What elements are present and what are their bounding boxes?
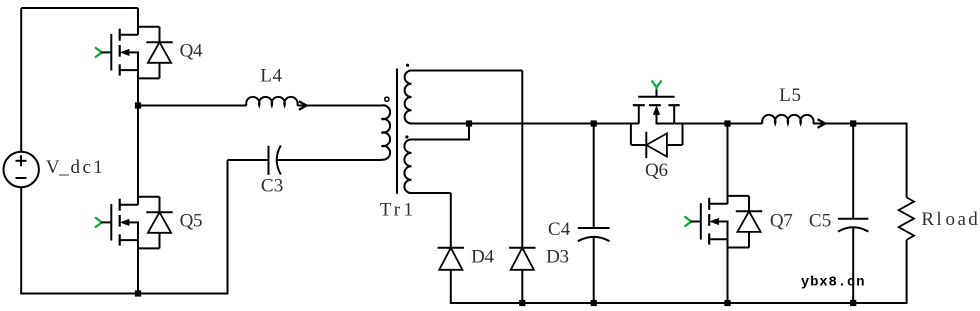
svg-text:7: 7 [783,211,793,232]
svg-text:b: b [810,275,818,291]
voltage source V_dc1 [4,152,39,187]
junction center tap [466,120,472,126]
transformer Tr1 primary winding [382,105,391,159]
svg-text:C: C [809,211,822,232]
transformer Tr1 secondary 2 winding [404,139,411,193]
wire Rload to bottom rail [906,240,908,304]
svg-text:L: L [260,66,272,87]
wire node B to Q7 drain [727,124,729,204]
svg-text:R: R [921,209,934,230]
label Q4 [180,40,203,61]
svg-text:4: 4 [561,219,571,240]
label L4 [260,66,282,87]
wire secondary2 top to center tap [412,124,470,141]
label Rload [921,209,978,230]
svg-text:a: a [957,209,966,230]
svg-text:5: 5 [822,211,832,232]
label C4 [548,219,571,240]
svg-text:Q: Q [180,210,194,231]
svg-text:4: 4 [273,66,283,87]
wire rail to Rload [813,124,907,198]
wire node B to L5 [728,123,763,125]
transistor Q7 [685,196,763,248]
svg-text:.: . [838,275,846,291]
junction Q7 bottom [724,300,730,306]
wire rail to C4 [593,124,595,229]
svg-text:n: n [856,275,864,291]
diode D3 [509,248,535,304]
wire Q6 right to node B [675,123,728,125]
junction C5 top [850,120,856,126]
svg-text:V: V [46,157,60,178]
label C3 [261,176,283,197]
wire bottom output rail [451,302,908,304]
svg-text:4: 4 [485,246,495,267]
svg-text:3: 3 [274,176,284,197]
Tr1 primary polarity dot [385,97,389,101]
svg-text:c: c [847,275,855,291]
svg-text:4: 4 [193,40,203,61]
Tr1 secondary 1 polarity dot [406,64,409,67]
svg-text:r: r [394,200,401,221]
wire Q5 source to bottom rail [137,240,139,294]
junction C4 bottom [591,300,597,306]
Tr1 secondary 2 polarity dot [405,135,408,138]
svg-text:Q: Q [180,40,194,61]
wire Q7 source to bottom rail [727,239,729,303]
wire Q4 drain [137,8,139,35]
wire C5 to bottom rail [852,227,854,303]
svg-text:1: 1 [93,157,103,178]
junction C4 top [591,120,597,126]
wire node A down to Q5 drain [137,106,139,205]
wire rail to C5 [852,124,854,219]
wire secondary2 bottom to D4 [412,193,451,248]
wire node A to L4 [138,105,247,107]
wire to C3 left plate [228,159,269,161]
label L5 [779,85,801,106]
svg-text:c: c [82,157,90,178]
wire C3 to Tr1 primary bottom [277,159,382,161]
svg-text:y: y [801,275,810,291]
junction D3 bottom [519,300,525,306]
inductor L4 [246,97,381,110]
label Q7 [770,211,793,232]
wire center-tap rail to Q6 [469,123,639,125]
transistor Q6 [631,81,683,159]
node B junction [724,120,730,126]
watermark ybx8.cn [801,275,865,291]
svg-text:x: x [819,275,828,291]
wire secondary1 top to D3 [412,71,523,248]
svg-text:L: L [779,85,791,106]
wire C4 to bottom rail [593,237,595,303]
svg-text:6: 6 [658,160,668,181]
wire Q4 source to node A [137,70,139,106]
svg-text:o: o [946,209,956,230]
capacitor C4 [578,228,610,241]
svg-text:1: 1 [403,200,413,221]
svg-text:Q: Q [645,160,659,181]
svg-text:D: D [546,246,560,267]
svg-text:8: 8 [828,275,836,291]
transistor Q4 [95,27,173,79]
svg-text:C: C [261,176,274,197]
svg-text:C: C [548,219,561,240]
capacitor C3 [269,145,281,175]
node A junction [135,102,141,108]
label C5 [809,211,831,232]
svg-text:D: D [471,246,485,267]
svg-text:3: 3 [560,246,570,267]
transformer Tr1 secondary 1 winding [405,70,412,123]
wire bottom-left rail [20,293,227,295]
wire secondary1 bottom (center tap) [412,123,470,125]
svg-text:5: 5 [193,210,203,231]
Tr1 core [396,69,398,194]
svg-text:5: 5 [791,85,801,106]
label Q5 [180,210,203,231]
resistor Rload [899,197,914,240]
svg-text:l: l [936,209,941,230]
svg-text:T: T [380,200,392,221]
svg-text:_: _ [58,157,69,178]
junction Q5 source / bottom rail [135,290,141,296]
svg-text:d: d [71,157,81,178]
diode D4 [438,248,464,304]
svg-text:Q: Q [770,211,784,232]
label D3 [546,246,569,267]
label V_dc1 [46,157,103,178]
wire bottom rail up to C3 [227,160,229,294]
transistor Q5 [95,197,173,249]
capacitor C5 [838,219,868,232]
label Q6 [645,160,668,181]
label D4 [471,246,494,267]
svg-text:d: d [968,209,978,230]
inductor L5 [762,115,907,128]
junction C5 bottom [850,300,856,306]
label Tr1 [380,200,413,221]
wire top rail from V_dc1 to Q4 drain [21,8,138,152]
wire V_dc1 to bottom rail [20,187,22,294]
